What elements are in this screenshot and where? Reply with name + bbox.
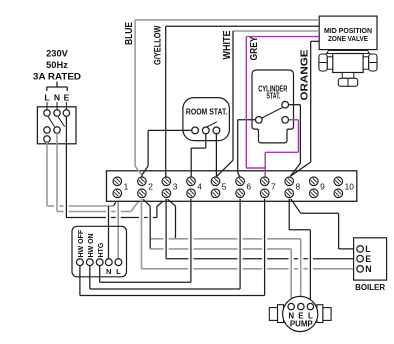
svg-text:L: L [365,244,371,254]
svg-text:ORANGE: ORANGE [300,49,311,100]
terminal label L [44,93,49,103]
zone valve left pipe stub [327,57,333,69]
label BLUE [124,22,135,45]
svg-text:WHITE: WHITE [222,30,233,59]
svg-text:HTG: HTG [98,242,105,257]
boiler label L [365,244,371,254]
svg-text:L: L [116,267,121,276]
wire valve ORANGE to terminal 8 [290,41,319,176]
terminal number 10 [345,181,355,191]
terminal 2 bottom screw [138,189,147,198]
wire room stat left to terminal 2 [142,130,192,177]
cylinder stat terminal demand [282,101,289,108]
wire terminal 8 to pump L [289,199,310,304]
terminal number 1 [124,181,129,191]
label GREY [249,36,260,60]
programmer label HW ON [88,233,95,257]
svg-text:4: 4 [197,181,202,191]
svg-text:E: E [365,254,371,264]
svg-text:BOILER: BOILER [355,282,386,292]
room stat body [183,98,230,141]
wire room stat demand to terminal 5 [215,134,218,177]
terminal number 6 [246,181,251,191]
terminal 2 top screw [138,177,147,186]
wire terminal 8 to boiler L [291,199,357,249]
terminal number 3 [173,181,178,191]
wire supply N grey down [56,133,58,211]
room stat terminal left [192,127,199,134]
svg-text:8: 8 [296,181,301,191]
wire supply E to terminal 3 [66,199,165,217]
terminal number 4 [197,181,202,191]
svg-text:230V: 230V [46,49,69,59]
svg-text:L: L [44,93,49,103]
svg-text:GREY: GREY [249,36,260,60]
wire programmer HW ON to terminal 6 [90,199,240,289]
svg-text:ZONE VALVE: ZONE VALVE [328,34,368,43]
boiler terminal E [357,255,364,262]
svg-text:ROOM STAT.: ROOM STAT. [186,108,228,117]
terminal strip junction box [107,171,357,202]
boiler terminal N [357,266,364,273]
zone valve right pipe stub [363,57,369,69]
isolator L fuse terminal [44,136,50,142]
label 230V 50Hz 3A RATED supply rating [33,49,81,82]
svg-text:BLUE: BLUE [124,22,135,45]
mid position zone valve box [319,16,377,50]
terminal 10 bottom screw [334,189,343,198]
svg-text:9: 9 [320,181,325,191]
wire terminal 1 grey down to programmer L [117,201,119,260]
terminal 5 bottom screw [211,189,220,198]
wire E through isolator box [65,116,67,144]
room stat switch blade [207,122,217,127]
boiler box [354,238,387,280]
wire terminal 3 to boiler E [166,199,357,259]
zone valve body [333,54,364,73]
programmer terminal L [115,259,122,266]
room stat terminal common [202,127,209,134]
svg-text:1: 1 [124,181,129,191]
room stat label [186,108,228,117]
terminal 3 bottom screw [162,189,171,198]
boiler terminal L [357,246,364,253]
zone valve right union nut [369,54,377,71]
zone valve label [324,26,372,43]
zone valve bottom union nut [338,78,357,86]
pump terminal E [298,303,304,309]
pump body [283,296,318,331]
programmer box [72,226,127,276]
room stat terminal demand [213,127,220,134]
wire valve GREY purple to terminal 7 [246,37,319,168]
wire programmer HTG to terminal 4 [100,199,191,283]
svg-text:7: 7 [271,181,276,191]
svg-text:N: N [54,93,60,103]
terminal number 8 [296,181,301,191]
wire terminal 2 grey down [141,199,143,269]
terminal number 9 [320,181,325,191]
terminal 5 top screw [211,177,220,186]
wire valve G/YELLOW to terminal 3 [166,26,320,177]
wire valve BLUE to terminal 2 [135,20,319,175]
wire terminal 1 to programmer N [108,206,110,259]
cylinder stat terminal satisfied [282,117,289,124]
pump label N E L [288,311,313,320]
svg-text:3: 3 [173,181,178,191]
terminal 7 top screw [260,177,269,186]
svg-text:STAT.: STAT. [266,91,280,100]
isolator E input terminal [63,102,69,116]
programmer terminal HTG [96,259,103,266]
cylinder stat switch blade [262,108,283,119]
svg-text:N: N [365,264,371,274]
label G/YELLOW [153,25,163,65]
terminal 8 top screw [285,177,294,186]
terminal 10 top screw [334,177,343,186]
isolator N input terminal [54,102,60,116]
wire cylinder stat demand to terminal 8 [289,105,301,177]
terminal number 5 [222,181,227,191]
programmer label N [106,267,111,276]
terminal number 2 [148,181,153,191]
wire supply E down [65,144,67,218]
svg-text:G/YELLOW: G/YELLOW [153,25,163,65]
zone valve bottom pipe stub [342,73,354,79]
programmer label HW OFF [78,229,85,257]
terminal label E [64,93,70,103]
boiler label [355,282,386,292]
wire cylinder stat common to terminal 6 [238,120,256,178]
isolator L input terminal [44,102,50,116]
terminal 7 bottom screw [260,189,269,198]
zone valve flange plate [327,51,370,54]
zone valve left union nut [319,54,327,71]
isolator L output terminal [44,127,50,133]
wire programmer HW OFF to terminal 7 [80,199,265,296]
svg-text:N: N [106,267,111,276]
terminal 4 bottom screw [187,189,196,198]
wire supply L to terminal 1 [47,199,117,206]
svg-text:50Hz: 50Hz [46,60,68,70]
programmer terminal HW ON [86,259,93,266]
terminal 1 bottom screw [113,189,122,198]
boiler label N [365,264,371,274]
svg-text:10: 10 [345,181,355,191]
isolator switch blade L [48,117,54,127]
programmer label HTG [98,242,105,257]
svg-text:6: 6 [246,181,251,191]
terminal 8 bottom screw [285,189,294,198]
terminal 9 bottom screw [310,189,319,198]
svg-text:HW ON: HW ON [88,233,95,257]
terminal label N [54,93,60,103]
programmer terminal HW OFF [77,259,84,266]
boiler label E [365,254,371,264]
pump label [290,319,313,328]
wire terminal 2 to pump N [143,199,291,303]
pump terminal L [307,303,313,309]
terminal 6 top screw [236,177,245,186]
pump left flange [269,305,283,323]
svg-text:3A RATED: 3A RATED [33,72,81,82]
svg-text:5: 5 [222,181,227,191]
cylinder stat body [252,70,294,143]
terminal 9 top screw [310,177,319,186]
svg-text:HW OFF: HW OFF [78,229,85,257]
label WHITE [222,30,233,59]
svg-text:E: E [64,93,70,103]
wire cylinder stat satisfied purple to terminal 7 [265,120,298,177]
isolator switch blade N [58,117,64,127]
wire room stat common to terminal 4 [191,134,206,177]
svg-text:PUMP: PUMP [290,319,313,328]
pump terminal N [288,303,294,309]
programmer terminal N [105,259,112,266]
isolator N output terminal [54,127,60,133]
wire supply L grey down [46,142,48,206]
terminal 6 bottom screw [236,189,245,198]
bracket from rating label to L N E [47,82,67,92]
terminal 1 top screw [113,177,122,186]
wire supply N to terminal 2 [57,199,140,212]
cylinder stat label [258,84,287,100]
terminal 3 top screw [162,177,171,186]
wire terminal 3 to pump E [150,199,301,303]
label ORANGE [300,49,311,100]
pump right flange [317,305,331,323]
programmer label L [116,267,121,276]
terminal 4 top screw [187,177,196,186]
wire terminal 2 to boiler N [142,268,357,270]
mains isolator switch box [37,107,76,144]
terminal number 7 [271,181,276,191]
svg-text:2: 2 [148,181,153,191]
wire valve WHITE to terminal 5 [217,31,319,176]
cylinder stat terminal common [255,117,262,124]
